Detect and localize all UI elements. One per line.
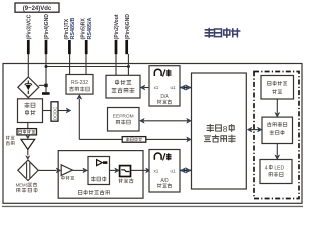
arrow DAC to analog out: [140, 85, 149, 90]
key detect label 按键检测/接口: [268, 81, 287, 93]
wire Vout pin to analog box: [115, 54, 117, 75]
svg-text:(9~24)Vdc: (9~24)Vdc: [23, 6, 52, 12]
ground symbol: [42, 92, 50, 95]
drive source box: [17, 129, 37, 135]
arrow drive to sensor: [26, 149, 30, 159]
wire key detect to display driver: [275, 99, 280, 117]
svg-text:u1: u1: [171, 85, 177, 90]
svg-text:(Pin2)Vout: (Pin2)Vout: [114, 14, 120, 39]
wire TX pin to RS-232 box: [69, 54, 71, 75]
power supply label box (9~24)Vdc: [15, 3, 59, 12]
junction diode-ground: [44, 84, 47, 87]
analog output interface box: [106, 75, 140, 98]
double arrow EEPROM-MCU: [140, 118, 192, 123]
wire power to DC-DC box: [43, 110, 52, 112]
pin labels: [27, 14, 131, 40]
MCU label 高速8位/微控制器: [204, 124, 235, 142]
drive amplifier triangle: [21, 139, 35, 149]
wire GND rail: [46, 66, 128, 68]
svg-text:(Pin1)TX: (Pin1)TX: [64, 18, 70, 39]
signal conditioning box: [58, 151, 143, 199]
key detect interface box: [261, 76, 294, 100]
wire display driver to LED: [275, 144, 280, 160]
wire diode to ground line: [39, 84, 46, 86]
pin stubs: [27, 40, 128, 54]
svg-text:x1: x1: [154, 85, 159, 90]
dashed display panel box: [254, 72, 299, 199]
junction GND rail right: [127, 65, 130, 68]
op-amp icon: [97, 160, 108, 166]
svg-text:DC/DC: DC/DC: [52, 107, 57, 120]
svg-text:RS485/B: RS485/B: [70, 18, 76, 40]
RS-232 label 通讯接口: [70, 87, 90, 91]
junction GND rail left: [45, 65, 48, 68]
wire RS-232 to MCU: [77, 95, 191, 142]
D/A converter box: [149, 66, 180, 106]
microcontroller box: [192, 73, 247, 189]
svg-text:MEMS: MEMS: [16, 183, 29, 188]
amplifier box: [88, 157, 110, 185]
svg-text:u1: u1: [171, 169, 177, 174]
double arrow MCU-display driver: [247, 127, 262, 132]
EEPROM box: [108, 108, 140, 132]
amplifier label 放大器: [91, 177, 106, 182]
wire amplifier to filter: [110, 168, 120, 173]
DC-DC converter box: [51, 102, 58, 121]
double arrow ADC-MCU: [181, 168, 191, 173]
drive circuit label 驱动/电路: [6, 136, 14, 145]
filter box: [120, 166, 131, 177]
svg-text:LED: LED: [274, 165, 284, 171]
drive source label: [19, 130, 35, 134]
RS-232 interface box: [66, 75, 93, 95]
wire sensor to signal box: [38, 168, 61, 173]
svg-text:A/D: A/D: [160, 178, 169, 184]
svg-text:(Pin4)GND: (Pin4)GND: [125, 14, 131, 40]
wire GND2 pin to analog box: [127, 54, 129, 75]
svg-text:4: 4: [265, 165, 268, 171]
page rule line: [2, 205, 303, 207]
arrow DC-DC output: [58, 108, 71, 113]
level shifter label: [126, 138, 142, 141]
svg-text:EEPROM: EEPROM: [113, 113, 134, 119]
arrow into drive amplifier: [26, 135, 30, 139]
svg-text:(Pin4)GND: (Pin4)GND: [44, 14, 50, 40]
MEMS sensor label MEMS流量/传感芯片: [16, 183, 37, 193]
level shifter box on wire: [122, 137, 146, 143]
svg-text:RS-232: RS-232: [71, 80, 88, 86]
buffer amplifier triangle: [61, 165, 72, 176]
MEMS flow sensor diamond: [18, 160, 38, 180]
buffer label 缓冲器: [62, 176, 74, 180]
A/D converter box: [149, 150, 180, 193]
power module box: [18, 99, 43, 123]
svg-text:8: 8: [223, 124, 228, 134]
display driver box: [262, 117, 293, 143]
svg-text:RS485/A: RS485/A: [87, 18, 93, 40]
LED display label 4位LED/显示器: [265, 165, 285, 177]
power module label 电源/模块: [25, 103, 36, 115]
EEPROM label 存储器: [116, 120, 130, 124]
svg-text:(Pin3)VCC: (Pin3)VCC: [27, 14, 33, 39]
signal conditioning label 信号调理电路: [78, 190, 109, 195]
wire RX pin to RS-232 box: [85, 54, 87, 75]
filter label 滤波器: [119, 179, 134, 183]
double arrow DAC-MCU: [181, 85, 191, 90]
protection diode D1 (diamond): [18, 77, 39, 98]
svg-text:(Pin5)RX: (Pin5)RX: [81, 18, 87, 40]
wire filter to ADC: [131, 168, 151, 173]
title 原理框图: [205, 28, 240, 37]
display driver label 显示与按/键驱动: [267, 122, 287, 135]
svg-text:D/A: D/A: [160, 94, 169, 100]
analog output label 模拟量/输出接口: [112, 80, 134, 93]
LED display box: [260, 160, 292, 184]
wire diode to power module: [27, 98, 29, 99]
wire buffer to amplifier: [72, 168, 87, 173]
wire power module to drive source box: [27, 123, 29, 129]
wire GND pin down to ground: [45, 54, 47, 93]
wire VCC pin to protection diode: [27, 54, 29, 78]
svg-text:x1: x1: [154, 169, 159, 174]
main enclosure box: [3, 64, 302, 204]
